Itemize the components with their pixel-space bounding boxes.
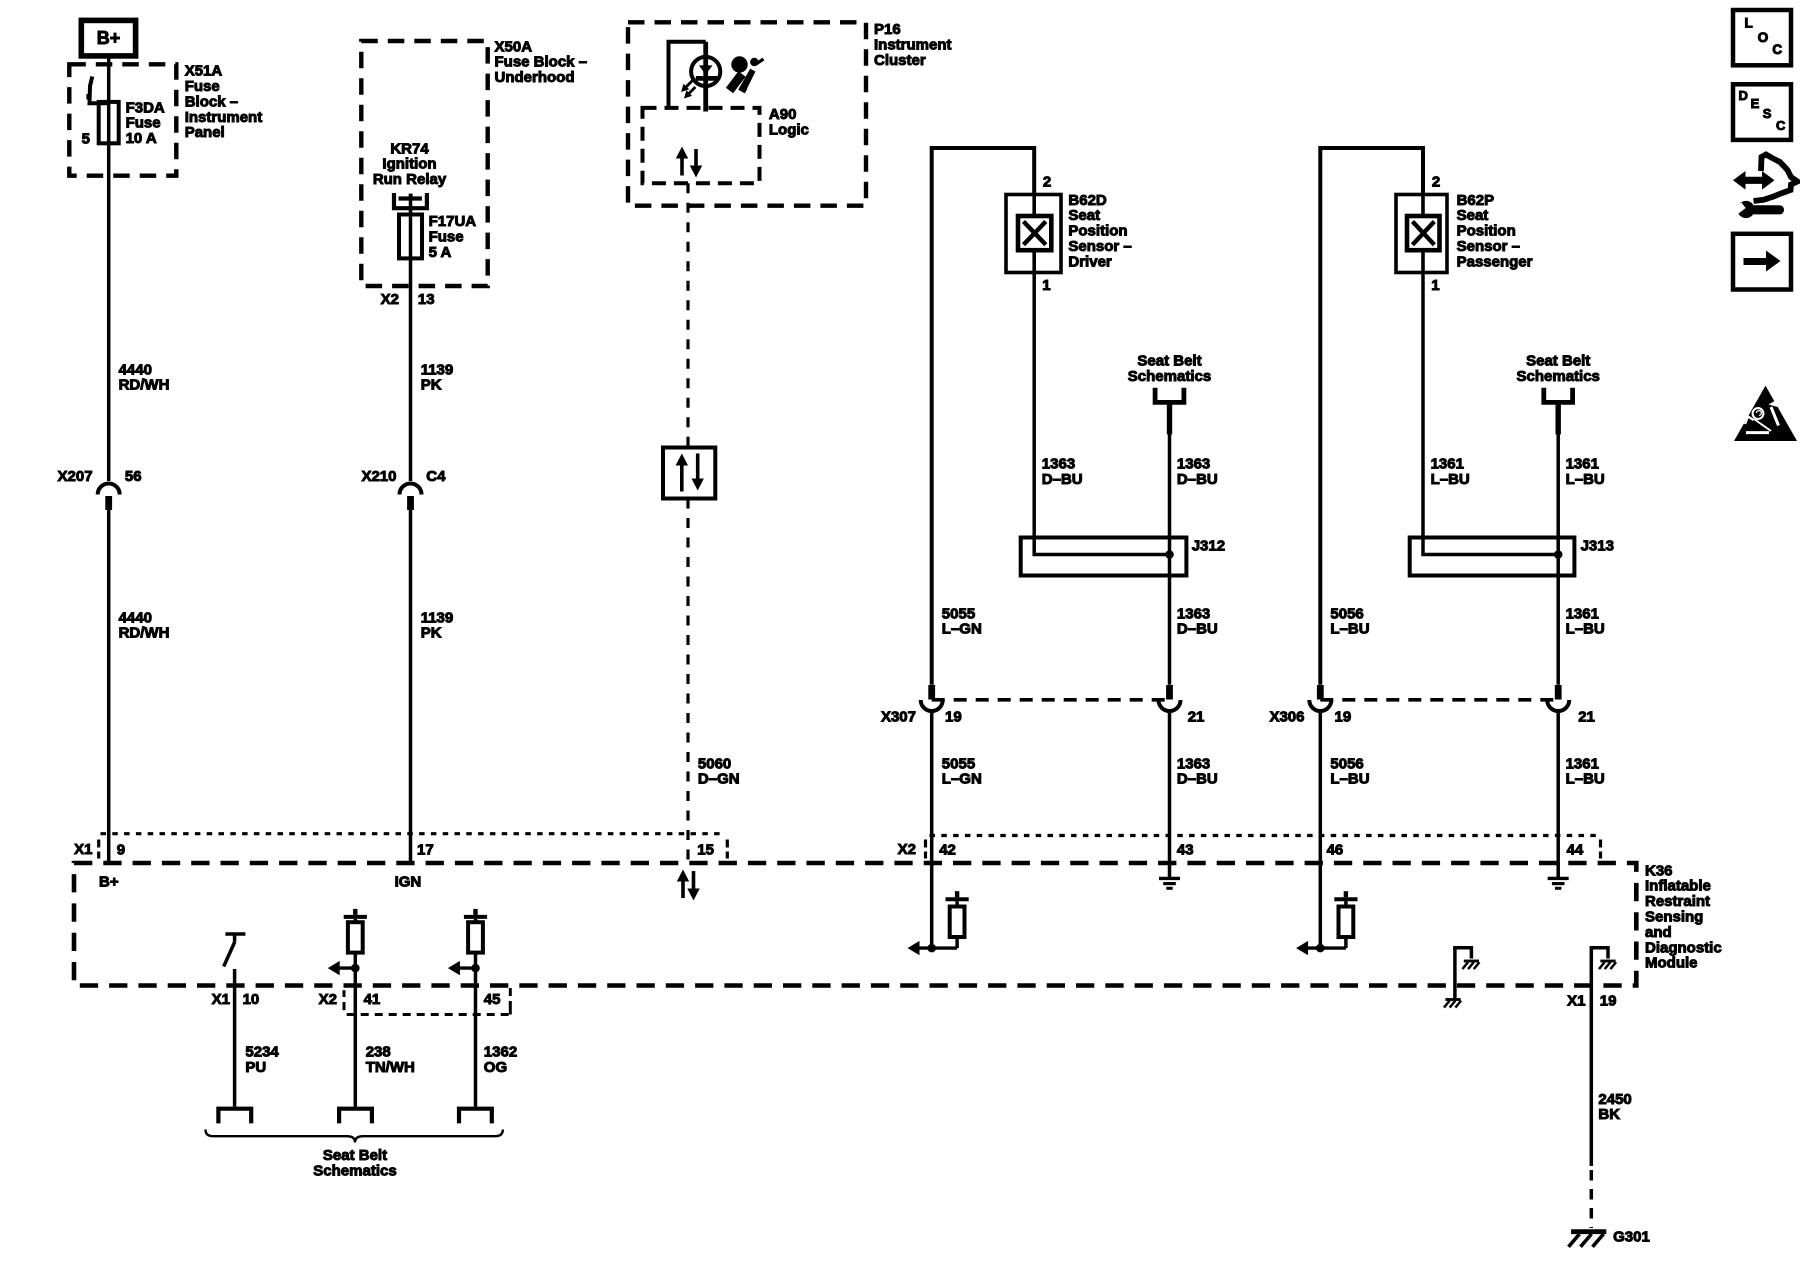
svg-text:PU: PU [245,1059,266,1076]
X1 row left separator [97,840,100,848]
svg-text:5 A: 5 A [429,244,452,261]
svg-text:S: S [1763,106,1772,121]
wire B+ to X207 (4440 RD/WH) [107,56,111,481]
svg-text:L–GN: L–GN [942,621,982,638]
svg-text:BK: BK [1598,1106,1620,1123]
schematic continuation arrow box [1733,234,1791,290]
svg-text:X1: X1 [1567,993,1585,1010]
internal switch X1-10 [225,932,245,936]
seat position sensor B62P box [1396,195,1447,273]
svg-text:L–BU: L–BU [1330,621,1369,638]
wire X210 to K36 pin 17 (1139 PK) [409,509,413,864]
wire seat belt source to J312 (1363 D-BU) [1168,434,1172,540]
seat belt schematics source symbol (driver) [1155,388,1184,403]
wire X207 to K36 pin 9 (4440 RD/WH) [107,509,111,864]
svg-text:21: 21 [1578,708,1595,725]
fuse F17UA [399,215,422,259]
internal sense arrow pin 42 [916,946,958,949]
svg-text:OG: OG [484,1059,507,1076]
K36 connector face dotted row X2 [930,834,1598,837]
wire seat belt source to J313 (1361 L-BU) [1556,434,1560,540]
airbag indicator lamp circuit loop [669,42,706,108]
svg-text:D–GN: D–GN [698,771,740,788]
svg-text:X2: X2 [898,841,916,858]
wire K36 pin 42 to B62D loop [932,148,1034,685]
svg-text:46: 46 [1327,842,1344,859]
wire pin 41 to terminal (238 TN/WH) [354,968,358,1107]
svg-text:RD/WH: RD/WH [119,625,170,642]
svg-text:56: 56 [125,468,142,485]
svg-text:13: 13 [418,291,435,308]
svg-text:15: 15 [697,842,714,859]
connector X307 terminal 19 [928,685,935,700]
svg-text:2: 2 [1432,173,1440,190]
svg-text:D–BU: D–BU [1177,621,1218,638]
connector X210 terminal C4 [400,484,422,495]
svg-text:17: 17 [417,842,434,859]
wire pin 45 to terminal (1362 OG) [474,968,478,1107]
connector X307 terminal 21 [1166,685,1173,700]
svg-text:IGN: IGN [395,874,422,891]
seat position sensor B62D box [1006,195,1061,273]
svg-text:Passenger: Passenger [1457,253,1533,270]
svg-text:Module: Module [1645,955,1698,972]
connector X207 terminal 56 [98,484,120,495]
svg-text:D–BU: D–BU [1042,471,1083,488]
svg-text:E: E [1751,96,1760,111]
wire K36 pin 46 to B62P loop [1320,148,1423,685]
wire X307-19 to K36 pin 42 (5055 L-GN) [930,712,934,865]
svg-text:PK: PK [421,377,442,394]
internal pull-up resistor pin 41 [353,909,357,915]
svg-text:21: 21 [1188,708,1205,725]
dashed wire A90 to serial-data box (5060 D-GN) [686,183,689,447]
serial data arrows below pin 15 [681,879,685,899]
wire X307-21 to K36 pin 43 (1363 D-BU) [1168,712,1172,865]
svg-text:Driver: Driver [1068,253,1112,270]
svg-text:Run Relay: Run Relay [373,171,447,188]
internal pull-up resistor pin 46 [1344,891,1348,897]
connector X306 terminal 21 [1555,685,1562,700]
svg-text:B+: B+ [97,28,121,48]
terminal to seat belt schematics 1 [218,1109,251,1124]
svg-text:J312: J312 [1192,537,1225,554]
internal chassis ground branch [1455,948,1472,999]
svg-text:TN/WH: TN/WH [366,1059,415,1076]
wire X306-21 to K36 pin 44 (1361 L-BU) [1556,712,1560,865]
A90 bidirectional arrows [680,156,684,176]
svg-text:G301: G301 [1613,1229,1650,1246]
svg-text:9: 9 [117,842,125,859]
internal sense arrow pin 46 [1304,946,1346,949]
ground output branch X1-19 [1591,948,1608,986]
bottom X2 connector dashed outline [343,990,346,997]
svg-text:X306: X306 [1269,708,1304,725]
svg-text:PK: PK [421,625,442,642]
svg-text:X207: X207 [58,468,93,485]
wire B62D pin1 to J312 (1363 D-BU) [1032,273,1036,540]
svg-text:X2: X2 [381,291,399,308]
relay KR74 contact [394,193,427,208]
airbag child seat warning triangle [1734,386,1797,441]
svg-text:10 A: 10 A [126,130,157,147]
brace seat belt schematics [206,1130,503,1143]
wire X306-19 to K36 pin 46 (5056 L-BU) [1319,712,1323,865]
fuse F3DA [99,102,119,143]
svg-text:C: C [1776,118,1786,133]
logic device A90 dashed box [643,108,760,183]
terminal to seat belt schematics 3 [459,1109,492,1124]
internal sense arrow pin 45 [456,966,476,969]
svg-text:Schematics: Schematics [1128,368,1211,385]
svg-text:D–BU: D–BU [1177,771,1218,788]
svg-text:X1: X1 [74,841,92,858]
indicator lamp [691,57,720,86]
inflatable restraint module K36 dashed box [74,863,1636,986]
power feed B+ box [81,20,135,56]
X2 row right separator [1599,840,1602,848]
svg-text:X210: X210 [361,468,396,485]
svg-text:1: 1 [1431,277,1439,294]
svg-text:19: 19 [945,708,962,725]
dashed wire to G301 [1590,1170,1594,1228]
svg-text:L: L [1745,16,1753,31]
internal pull-up resistor pin 45 [473,909,477,915]
fuse block X51A dashed box [69,64,176,175]
svg-text:Logic: Logic [769,121,809,138]
wire B62P pin1 to J313 (1361 L-BU) [1421,273,1425,540]
terminal to seat belt schematics 2 [339,1109,372,1124]
svg-text:C4: C4 [426,468,446,485]
dashed wire serial-data box to K36 pin 15 [686,499,689,865]
wire pin 42 internal [930,864,934,948]
svg-text:X2: X2 [319,991,337,1008]
instrument cluster P16 dashed box [628,22,866,205]
svg-text:D–BU: D–BU [1177,471,1218,488]
splice pack J313 [1410,538,1575,576]
svg-text:Underhood: Underhood [495,69,575,86]
X1 row right separator [726,840,729,848]
serial data box with arrows [663,448,715,499]
svg-text:J313: J313 [1581,537,1614,554]
svg-text:X1: X1 [212,991,230,1008]
B62P sensor element [1421,195,1425,217]
seat belt schematics source symbol (passenger) [1544,388,1573,403]
svg-text:45: 45 [484,991,501,1008]
svg-text:L–BU: L–BU [1431,471,1470,488]
bus clip in X51A [90,77,109,104]
svg-text:43: 43 [1177,842,1194,859]
svg-text:Panel: Panel [185,124,225,141]
svg-text:B+: B+ [99,874,119,891]
svg-text:Schematics: Schematics [313,1162,396,1179]
wire switch to X1-10 [233,969,237,1107]
X2 row left separator [924,840,927,848]
svg-text:19: 19 [1600,993,1617,1010]
svg-text:44: 44 [1567,842,1584,859]
DESC reference box [1733,84,1791,140]
K36 connector face dotted row X1 [101,832,725,835]
svg-text:L–BU: L–BU [1566,771,1605,788]
svg-text:1: 1 [1042,277,1050,294]
svg-text:L–BU: L–BU [1566,471,1605,488]
lamp light arrows [684,81,693,90]
internal ground pin 43 [1168,863,1172,877]
svg-text:10: 10 [243,991,260,1008]
svg-text:L–BU: L–BU [1330,771,1369,788]
svg-text:41: 41 [364,991,381,1008]
svg-text:L–BU: L–BU [1566,621,1605,638]
internal ground pin 44 [1556,863,1560,877]
airbag warning icon [731,56,747,72]
svg-text:Schematics: Schematics [1517,368,1600,385]
svg-text:RD/WH: RD/WH [119,377,170,394]
svg-text:O: O [1758,30,1769,45]
splice pack J312 [1021,538,1187,576]
LOC reference box [1733,10,1791,65]
connector X307 dashed tie [932,698,1170,702]
B62D sensor element [1032,195,1036,217]
svg-text:5: 5 [82,131,90,148]
wire pin 46 internal [1319,864,1323,948]
ground G301 [1571,1229,1606,1234]
internal pull-up resistor pin 42 [955,891,959,897]
svg-text:L–GN: L–GN [942,771,982,788]
svg-text:X307: X307 [881,708,916,725]
troubleshooting icon (arrows and wrench) [1733,171,1775,190]
svg-text:19: 19 [1335,708,1352,725]
svg-text:D: D [1739,88,1748,103]
connector X306 dashed tie [1320,698,1558,702]
svg-text:2: 2 [1043,173,1051,190]
svg-text:42: 42 [939,842,956,859]
connector X306 terminal 19 [1317,685,1324,700]
svg-text:C: C [1772,42,1782,57]
internal sense arrow pin 41 [336,966,356,969]
svg-text:Cluster: Cluster [874,52,926,69]
wire J313 to X306-21 (1361 L-BU) [1556,576,1560,685]
wire J312 to X307-21 (1363 D-BU) [1168,576,1172,685]
wire F17UA to X210 (1139 PK) [409,258,413,481]
fuse block X50A dashed box [361,41,487,286]
wire 2450 BK [1590,986,1594,1166]
